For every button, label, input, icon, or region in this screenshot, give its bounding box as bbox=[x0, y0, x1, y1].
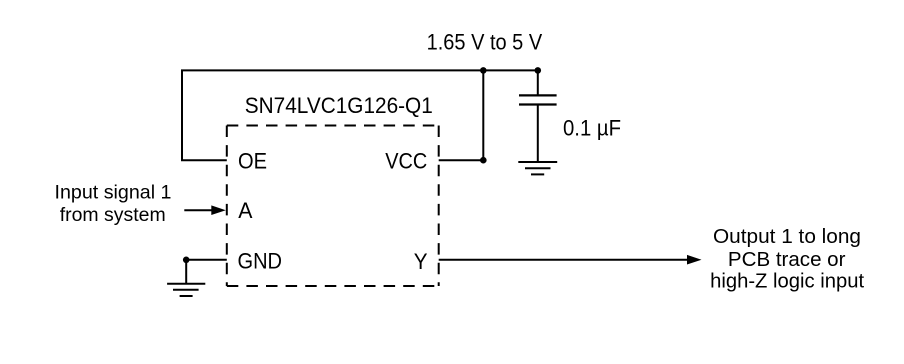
junction node at VCC rail / VCC pin branch bbox=[480, 67, 487, 74]
svg-text:SN74LVC1G126-Q1: SN74LVC1G126-Q1 bbox=[245, 93, 433, 118]
svg-text:GND: GND bbox=[238, 248, 283, 273]
wire: branch down from rail to VCC pin bbox=[439, 70, 484, 160]
svg-text:0.1 µF: 0.1 µF bbox=[563, 116, 621, 141]
svg-text:A: A bbox=[238, 198, 252, 223]
svg-text:VCC: VCC bbox=[385, 149, 427, 174]
wire: VCC rail from top-left corner to capacitor, with left drop to OE pin bbox=[182, 70, 538, 160]
svg-text:PCB trace or: PCB trace or bbox=[728, 249, 846, 271]
wire: input arrow shaft to pin A bbox=[184, 209, 213, 211]
svg-text:1.65 V to 5 V: 1.65 V to 5 V bbox=[427, 30, 543, 55]
junction node at VCC pin stub bbox=[480, 157, 487, 164]
svg-text:Y: Y bbox=[414, 249, 428, 274]
wire: rail down to capacitor top plate bbox=[537, 70, 539, 95]
op IC U1 outline (dashed box) bbox=[227, 126, 439, 287]
input arrowhead at pin A bbox=[211, 205, 226, 215]
svg-text:OE: OE bbox=[238, 149, 267, 174]
ground (below capacitor) bbox=[518, 162, 557, 174]
ground (GND pin) bbox=[167, 284, 205, 296]
junction node at rail / capacitor bbox=[535, 67, 542, 74]
svg-text:from system: from system bbox=[60, 204, 166, 226]
junction node at GND stub corner bbox=[183, 257, 190, 264]
wire: GND pin stub and drop to ground bbox=[186, 260, 227, 284]
output arrowhead bbox=[687, 255, 702, 265]
svg-text:high-Z logic input: high-Z logic input bbox=[710, 271, 864, 293]
svg-text:Input signal 1: Input signal 1 bbox=[55, 182, 172, 204]
wire: output from pin Y bbox=[439, 259, 689, 261]
capacitor C1 0.1 uF (bottom plate) bbox=[519, 103, 557, 105]
capacitor C1 0.1 uF (top plate) bbox=[519, 94, 557, 96]
svg-text:Output 1 to long: Output 1 to long bbox=[713, 226, 861, 248]
wire: capacitor bottom plate to ground bbox=[537, 105, 539, 163]
